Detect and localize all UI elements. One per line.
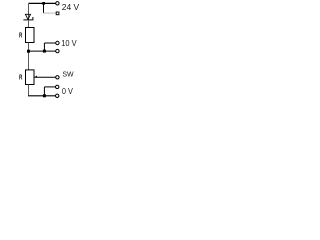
svg-text:0 V: 0 V (62, 87, 74, 96)
svg-text:R: R (19, 73, 23, 81)
svg-text:24 V: 24 V (62, 3, 80, 12)
svg-text:R: R (19, 32, 23, 40)
wire: 24V top rail from left corner to terminal (29, 2, 56, 4)
label 24 V (62, 3, 80, 12)
wire: R1 bottom to 10V node and down to R2 top (28, 43, 30, 70)
terminal circle SW (56, 76, 59, 79)
node junction on 10V branch (43, 50, 46, 53)
svg-text:10 V: 10 V (61, 39, 77, 48)
wire: wiper to SW terminal (34, 76, 55, 78)
terminal square pad 24V (56, 12, 59, 15)
wire: 10V horizontal to lower terminal (29, 50, 56, 52)
node junction on 0V rail (43, 94, 46, 97)
label R (R2) (19, 73, 23, 81)
terminal circle 10V upper (56, 41, 59, 44)
wire: 0V upper horizontal to terminal (44, 86, 55, 88)
node junction on 24V rail (42, 2, 45, 5)
terminal circle 0V lower (56, 94, 59, 97)
wire: 10V upper horizontal to terminal (44, 42, 55, 44)
terminal circle 0V upper (56, 85, 59, 88)
label 0 V (62, 87, 74, 96)
potentiometer R2 wiper arrowhead (34, 76, 37, 78)
label 10 V (61, 39, 77, 48)
label R (R1) (19, 32, 23, 40)
wire: stub up from 0V junction (43, 87, 45, 96)
wire: grey lead to 24V square pad (44, 12, 56, 14)
node junction 10V tap on main wire (27, 50, 30, 53)
wire: stub up from 10V junction (43, 43, 45, 51)
wire: from 24V rail down to zener anode (28, 3, 30, 14)
label SW (62, 69, 73, 78)
potentiometer R2 body (26, 70, 35, 85)
resistor R1 body (26, 28, 35, 43)
wire: R2 bottom to 0V rail (28, 85, 56, 96)
svg-text:SW: SW (62, 69, 73, 78)
wire: zener cathode to resistor R1 top (28, 20, 30, 28)
terminal circle 10V lower (56, 49, 59, 52)
zener diode D1 cathode bar with tick (23, 17, 33, 20)
wire through zener triangle (28, 14, 30, 20)
zener diode D1 triangle (25, 14, 30, 19)
terminal circle 24V (56, 2, 59, 5)
wire: stub down from 24V junction (43, 3, 45, 13)
